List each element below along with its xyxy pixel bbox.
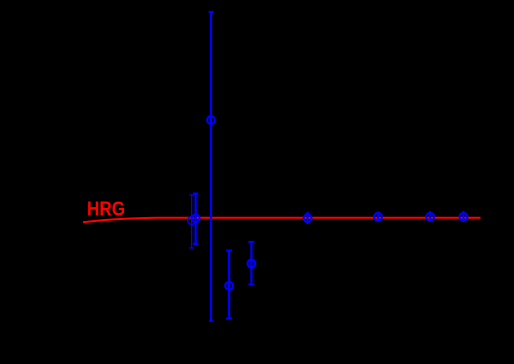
error bar point 9 [462, 211, 464, 222]
data point 8 circle [426, 213, 434, 221]
HRG model curve [83, 218, 481, 223]
error bar point 3 (large) [209, 12, 214, 321]
error bar point 5 [248, 242, 254, 285]
data point 9 circle [460, 213, 468, 221]
data point 7 circle [374, 213, 382, 221]
data point 6 circle [304, 214, 312, 222]
error bar point 2 [193, 194, 198, 244]
error bar point 4 [226, 251, 232, 319]
data point 3 circle [207, 116, 215, 124]
error bar thin point 1 [189, 195, 194, 248]
data point 4 circle [225, 282, 233, 290]
svg-text:HRG: HRG [87, 199, 125, 221]
error bar point 8 [429, 211, 431, 221]
data point 1 circle [188, 216, 196, 224]
error bar point 7 [377, 211, 379, 221]
data point 5 circle [248, 260, 256, 268]
data point 2 circle [192, 215, 200, 223]
error bar point 6 [307, 212, 309, 224]
